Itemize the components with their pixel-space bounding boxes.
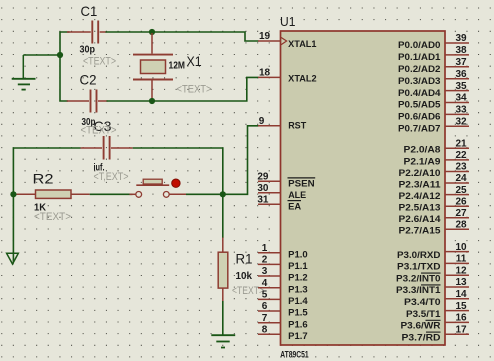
ground (top-left) xyxy=(12,55,36,90)
svg-text:P2.5/A13: P2.5/A13 xyxy=(399,203,441,213)
svg-text:P1.1: P1.1 xyxy=(288,261,308,271)
svg-text:<TEXT>: <TEXT> xyxy=(83,56,116,68)
wire: C1 left to C2 left rail xyxy=(60,32,70,101)
resistor R1 xyxy=(218,238,228,302)
svg-text:7: 7 xyxy=(262,313,268,324)
pin 16 (P3.6/WR) xyxy=(401,313,470,331)
svg-text:25: 25 xyxy=(455,185,467,196)
node: X1 top junction xyxy=(149,29,155,35)
svg-text:P0.7/AD7: P0.7/AD7 xyxy=(398,124,441,134)
svg-text:RST: RST xyxy=(288,121,307,131)
wire: left rail (C3/R2/ground arrow) xyxy=(13,148,80,262)
svg-text:P2.0/A8: P2.0/A8 xyxy=(404,145,441,155)
pin 14 (P3.4/T0) xyxy=(404,289,469,307)
svg-text:39: 39 xyxy=(455,33,467,44)
svg-text:X1: X1 xyxy=(187,53,202,69)
svg-text:29: 29 xyxy=(257,172,269,183)
svg-text:36: 36 xyxy=(455,69,467,80)
svg-text:5: 5 xyxy=(262,290,268,301)
svg-text:<TEXT>: <TEXT> xyxy=(177,83,212,95)
svg-text:37: 37 xyxy=(455,57,467,68)
wire: C1 to X1 top junction xyxy=(106,31,153,33)
svg-text:2: 2 xyxy=(262,255,268,266)
red state dot (button) xyxy=(172,179,180,187)
pin 7 (P1.6) xyxy=(258,313,308,329)
svg-text:P1.2: P1.2 xyxy=(288,273,308,283)
svg-text:<TEXT>: <TEXT> xyxy=(81,125,117,137)
svg-text:P3.2/INT0: P3.2/INT0 xyxy=(396,273,441,283)
pin 38 (P0.1/AD1) xyxy=(398,45,469,62)
svg-text:<TEXT>: <TEXT> xyxy=(232,285,264,297)
svg-text:33: 33 xyxy=(455,105,467,116)
svg-text:18: 18 xyxy=(259,68,271,79)
svg-text:<T,EXT>: <T,EXT> xyxy=(94,171,129,183)
svg-text:19: 19 xyxy=(259,31,271,42)
pin 30 (ALE) xyxy=(257,183,306,200)
svg-text:P1.4: P1.4 xyxy=(288,296,308,306)
svg-text:31: 31 xyxy=(257,195,269,206)
svg-text:3: 3 xyxy=(262,266,268,277)
pin 12 (P3.2/INT0) xyxy=(396,265,469,283)
svg-text:P2.3/A11: P2.3/A11 xyxy=(399,179,441,189)
svg-text:15: 15 xyxy=(455,301,467,312)
push button switch xyxy=(129,179,186,197)
wire: R2 to button xyxy=(90,193,133,195)
svg-text:C1: C1 xyxy=(81,3,98,19)
svg-text:AT89C51: AT89C51 xyxy=(280,349,309,360)
pin 5 (P1.4) xyxy=(258,290,308,306)
svg-text:35: 35 xyxy=(455,81,467,92)
wire: rail to ground xyxy=(23,54,61,56)
pin 37 (P0.2/AD2) xyxy=(398,57,469,74)
pin 27 (P2.6/A14) xyxy=(399,208,470,224)
svg-text:9: 9 xyxy=(259,116,265,127)
resistor R2 xyxy=(13,190,89,198)
capacitor C1 xyxy=(67,21,107,44)
node: reset net junction xyxy=(220,191,226,197)
pin 6 (P1.5) xyxy=(258,301,308,317)
node: left rail junction at R2 xyxy=(10,191,16,197)
svg-text:38: 38 xyxy=(455,45,467,56)
svg-text:P0.4/AD4: P0.4/AD4 xyxy=(398,88,441,98)
svg-text:P2.7/A15: P2.7/A15 xyxy=(399,226,441,236)
svg-text:30p: 30p xyxy=(80,45,96,56)
pin 28 (P2.7/A15) xyxy=(399,220,470,236)
svg-text:27: 27 xyxy=(455,208,467,219)
svg-text:10k: 10k xyxy=(236,271,253,282)
svg-text:C2: C2 xyxy=(80,71,97,87)
pin 9 (RST) xyxy=(258,116,307,131)
svg-text:10: 10 xyxy=(455,242,467,253)
pin 13 (P3.3/INT1) xyxy=(396,277,469,295)
svg-text:24: 24 xyxy=(455,173,467,184)
svg-text:17: 17 xyxy=(455,324,467,335)
pin 21 (P2.0/A8) xyxy=(404,139,470,155)
svg-text:26: 26 xyxy=(455,196,467,207)
svg-text:12: 12 xyxy=(455,265,467,276)
wire: R1 to ground xyxy=(222,301,224,335)
capacitor C2 xyxy=(67,90,108,113)
svg-text:P1.6: P1.6 xyxy=(288,319,308,329)
svg-text:P1.5: P1.5 xyxy=(288,308,308,318)
pin 4 (P1.3) xyxy=(258,278,308,294)
wire: X1 bottom to XTAL2 pin xyxy=(152,77,259,101)
pin 34 (P0.5/AD5) xyxy=(398,93,469,110)
svg-text:P0.3/AD3: P0.3/AD3 xyxy=(398,76,441,86)
pin 11 (P3.1/TXD) xyxy=(397,254,469,272)
pin 39 (P0.0/AD0) xyxy=(398,33,469,50)
pin 3 (P1.2) xyxy=(258,266,308,282)
svg-text:21: 21 xyxy=(455,139,467,150)
svg-text:<TEXT>: <TEXT> xyxy=(34,211,71,223)
op-amp/IC U1 AT89C51 body xyxy=(281,31,446,345)
pin 24 (P2.3/A11) xyxy=(399,173,470,189)
svg-text:R2: R2 xyxy=(33,170,54,186)
svg-text:P2.4/A12: P2.4/A12 xyxy=(399,191,441,201)
svg-text:6: 6 xyxy=(262,301,268,312)
svg-text:P0.5/AD5: P0.5/AD5 xyxy=(398,100,441,110)
svg-text:P3.6/WR: P3.6/WR xyxy=(401,321,442,331)
svg-text:P0.6/AD6: P0.6/AD6 xyxy=(398,112,441,122)
ground (bottom, under R1) xyxy=(211,335,235,347)
pin 10 (P3.0/RXD) xyxy=(397,242,469,260)
svg-text:14: 14 xyxy=(455,289,467,300)
svg-text:P3.1/TXD: P3.1/TXD xyxy=(397,262,441,272)
svg-text:P2.1/A9: P2.1/A9 xyxy=(404,156,441,166)
svg-text:P2.2/A10: P2.2/A10 xyxy=(399,168,441,178)
pin 22 (P2.1/A9) xyxy=(404,150,470,166)
svg-text:8: 8 xyxy=(262,325,268,336)
capacitor C3 xyxy=(81,136,133,160)
svg-text:P3.0/RXD: P3.0/RXD xyxy=(397,250,441,260)
wire: X1 top to XTAL1 pin xyxy=(152,32,259,41)
svg-text:1: 1 xyxy=(262,243,268,254)
svg-text:28: 28 xyxy=(455,220,467,231)
ground arrow (bottom-left) xyxy=(7,253,19,264)
wire: C3 right to reset junction xyxy=(133,148,223,194)
wire: junction down to R1 xyxy=(222,194,224,238)
wire: button to reset junction / RST xyxy=(186,126,259,195)
svg-text:11: 11 xyxy=(456,254,467,265)
svg-text:R1: R1 xyxy=(236,251,253,267)
svg-text:P3.3/INT1: P3.3/INT1 xyxy=(396,285,441,295)
svg-text:4: 4 xyxy=(262,278,268,289)
svg-text:P1.0: P1.0 xyxy=(288,249,308,259)
svg-text:23: 23 xyxy=(455,162,467,173)
svg-text:U1: U1 xyxy=(280,14,295,29)
svg-text:P1.7: P1.7 xyxy=(288,331,308,341)
svg-text:EA: EA xyxy=(288,201,302,211)
svg-text:34: 34 xyxy=(455,93,467,104)
pin 2 (P1.1) xyxy=(258,255,308,271)
svg-text:XTAL1: XTAL1 xyxy=(288,39,316,49)
pin 36 (P0.3/AD3) xyxy=(398,69,469,86)
pin 17 (P3.7/RD) xyxy=(402,324,470,342)
pin 29 (PSEN) xyxy=(257,172,315,189)
pin 1 (P1.0) xyxy=(258,243,308,259)
svg-text:P0.0/AD0: P0.0/AD0 xyxy=(398,40,441,50)
crystal X1 xyxy=(133,33,173,101)
pin 18 (XTAL2) xyxy=(258,68,317,84)
svg-text:XTAL2: XTAL2 xyxy=(288,73,317,83)
pin 15 (P3.5/T1) xyxy=(406,301,469,319)
svg-text:22: 22 xyxy=(455,150,467,161)
pin 32 (P0.7/AD7) xyxy=(398,117,469,134)
pin 31 (EA) xyxy=(257,195,301,212)
pin 35 (P0.4/AD4) xyxy=(398,81,469,98)
pin 8 (P1.7) xyxy=(258,325,308,341)
svg-text:13: 13 xyxy=(455,277,467,288)
node: X1 bottom junction xyxy=(149,98,155,104)
svg-text:P1.3: P1.3 xyxy=(288,284,308,294)
svg-text:P0.2/AD2: P0.2/AD2 xyxy=(398,64,441,74)
svg-text:P2.6/A14: P2.6/A14 xyxy=(399,214,441,224)
svg-text:P3.4/T0: P3.4/T0 xyxy=(404,297,441,307)
svg-text:16: 16 xyxy=(455,313,467,324)
svg-text:P3.5/T1: P3.5/T1 xyxy=(406,309,441,319)
pin 33 (P0.6/AD6) xyxy=(398,105,469,122)
pin 19 (XTAL1) xyxy=(258,31,317,49)
svg-text:ALE: ALE xyxy=(288,190,306,200)
svg-text:30: 30 xyxy=(257,183,269,194)
pin 25 (P2.4/A12) xyxy=(399,185,470,201)
pin 23 (P2.2/A10) xyxy=(399,162,470,178)
pin 26 (P2.5/A13) xyxy=(399,196,470,212)
svg-text:12M: 12M xyxy=(169,61,186,72)
svg-text:32: 32 xyxy=(455,117,467,128)
svg-text:P3.7/RD: P3.7/RD xyxy=(402,332,442,342)
svg-text:P0.1/AD1: P0.1/AD1 xyxy=(398,52,441,62)
node: rail/ground junction xyxy=(57,52,63,58)
svg-text:PSEN: PSEN xyxy=(288,178,315,188)
